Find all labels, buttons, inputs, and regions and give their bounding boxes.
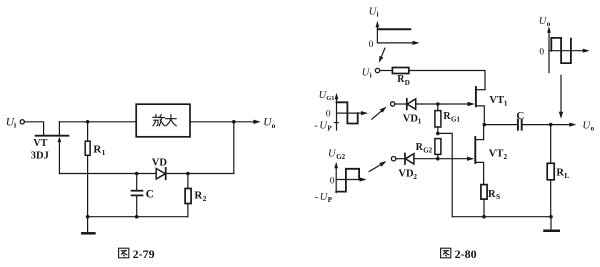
- waveform UG1 axes: [335, 93, 368, 130]
- resistor RL: [547, 125, 554, 217]
- wire bottom rail: [88, 216, 188, 218]
- label Ui terminal: [362, 67, 372, 79]
- svg-text:0: 0: [369, 40, 374, 50]
- capacitor C 2-80: [484, 120, 550, 130]
- svg-text:L: L: [564, 171, 569, 180]
- label VD2: [398, 169, 417, 181]
- svg-text:P: P: [328, 196, 333, 204]
- label Uo: [263, 117, 275, 130]
- label RG1: [443, 111, 460, 124]
- label RD: [397, 74, 410, 87]
- label 大 glyph: [166, 114, 177, 126]
- resistor RG1: [435, 104, 441, 133]
- label VD1: [403, 113, 422, 125]
- svg-text:0: 0: [330, 176, 335, 186]
- svg-text:i: i: [377, 10, 379, 18]
- node RG1 top junction: [436, 102, 440, 106]
- wire terminal to VD1: [395, 103, 407, 105]
- label 3DJ: [31, 150, 49, 161]
- label 0 waveform UG1: [326, 110, 331, 120]
- label UG2: [328, 149, 346, 161]
- wire Ui to gate: [25, 122, 44, 135]
- svg-text:VD: VD: [152, 157, 168, 168]
- resistor RD: [392, 68, 408, 74]
- svg-text:G2: G2: [336, 153, 345, 161]
- wire terminal to VD2: [396, 158, 405, 160]
- svg-text:VD: VD: [403, 113, 419, 124]
- arrow UG1 to VD1: [372, 107, 387, 120]
- label VD: [152, 157, 168, 168]
- label Ui waveform: [369, 6, 379, 18]
- node ground junction: [86, 215, 90, 219]
- ground: [82, 217, 94, 234]
- svg-text:3DJ: 3DJ: [31, 150, 49, 161]
- node Ui terminal 2-80: [375, 68, 379, 72]
- svg-text:G1: G1: [451, 115, 460, 123]
- svg-text:R: R: [488, 189, 496, 200]
- svg-text:1: 1: [102, 148, 106, 157]
- resistor RG2: [435, 139, 441, 159]
- diode VD: [156, 168, 166, 180]
- arrow waveform Ui to terminal: [379, 48, 385, 63]
- wire bottom rail 2-80: [452, 216, 551, 218]
- label VT1: [489, 95, 507, 107]
- resistor R1: [85, 122, 90, 217]
- node RG1 RG2 mid junction: [436, 132, 440, 136]
- svg-text:i: i: [370, 71, 372, 79]
- svg-text:2-79: 2-79: [133, 247, 155, 261]
- node ground junction 2-80: [549, 215, 553, 219]
- wire output arrow 2-80: [551, 123, 577, 127]
- ground 2-80: [545, 217, 559, 231]
- resistor RS: [481, 185, 487, 217]
- label VT2: [489, 148, 508, 160]
- caption 图 2-79: [119, 248, 129, 258]
- node RG2 bottom junction: [436, 157, 440, 161]
- arrow UG2 to VD2: [369, 161, 386, 171]
- wire Ui to RD: [380, 70, 393, 72]
- arrow waveform Uo to output: [559, 75, 563, 118]
- waveform UG1 pulse: [334, 102, 357, 123]
- svg-text:-: -: [314, 120, 318, 131]
- op-amp block 放大: [136, 104, 190, 137]
- label -UP waveform UG1: [314, 120, 332, 132]
- label C: [146, 189, 154, 201]
- svg-text:0: 0: [326, 110, 331, 120]
- node output junction: [232, 120, 236, 124]
- label 0 waveform UG2: [330, 176, 335, 186]
- label RS: [488, 189, 500, 201]
- wire VD1 to VT1 gate: [416, 103, 469, 105]
- label C 2-80: [516, 110, 524, 122]
- svg-text:2-80: 2-80: [455, 247, 477, 261]
- svg-text:VT: VT: [489, 95, 504, 106]
- svg-text:VD: VD: [398, 169, 414, 180]
- svg-text:2: 2: [503, 152, 507, 161]
- node C bottom junction: [135, 215, 139, 219]
- wire output to feedback rail: [166, 122, 234, 174]
- svg-text:2: 2: [203, 194, 207, 203]
- svg-text:-: -: [315, 192, 319, 203]
- node VD2 terminal: [391, 157, 395, 161]
- waveform UG2 pulse: [336, 169, 359, 192]
- label 0 waveform Ui: [369, 40, 374, 50]
- svg-text:C: C: [516, 110, 524, 122]
- transistor VT2: [467, 125, 484, 185]
- label RG2: [416, 142, 433, 155]
- transistor VT 3DJ: [36, 122, 69, 174]
- node VD1 terminal: [391, 102, 395, 106]
- caption 图 2-80: [441, 248, 451, 258]
- svg-text:D: D: [405, 79, 410, 87]
- diode VD2: [405, 154, 414, 165]
- transistor VT1: [468, 87, 485, 125]
- svg-text:o: o: [272, 121, 276, 130]
- wire mid junction to bottom rail: [438, 133, 452, 216]
- node RS bottom junction: [482, 215, 486, 219]
- wire VD2 to VT2 gate: [414, 158, 468, 160]
- label 放 glyph: [153, 115, 165, 126]
- svg-text:C: C: [146, 189, 154, 201]
- node drain junction: [86, 120, 90, 124]
- wire drain to amplifier: [59, 121, 136, 123]
- wire source to diode anode: [59, 173, 156, 175]
- label UG1: [319, 90, 335, 102]
- svg-text:2: 2: [413, 172, 417, 181]
- wire output arrow: [234, 120, 261, 124]
- svg-text:o: o: [591, 125, 595, 133]
- wire RD to VT1 drain: [409, 71, 485, 90]
- wire amplifier to output node: [190, 121, 234, 123]
- svg-text:o: o: [547, 20, 551, 28]
- svg-text:i: i: [14, 121, 16, 130]
- svg-text:G2: G2: [423, 146, 432, 154]
- label Uo terminal 2-80: [582, 120, 594, 133]
- label R1: [93, 144, 105, 157]
- svg-text:VT: VT: [489, 148, 504, 159]
- waveform Ui axes: [376, 21, 420, 45]
- node output junction 2-80: [549, 123, 553, 127]
- label VT: [33, 138, 47, 149]
- svg-text:0: 0: [539, 48, 544, 58]
- node C top junction: [135, 172, 139, 176]
- label -UP waveform UG2: [315, 192, 333, 204]
- node R2 top junction: [186, 172, 190, 176]
- svg-text:S: S: [496, 192, 500, 201]
- capacitor C: [132, 174, 143, 217]
- svg-text:R: R: [556, 168, 564, 179]
- svg-text:P: P: [327, 124, 332, 132]
- resistor R2: [185, 174, 191, 217]
- waveform Uo pulses: [551, 38, 571, 63]
- diode VD1: [407, 99, 416, 110]
- label 0 waveform Uo: [539, 48, 544, 58]
- waveform Uo axes: [547, 26, 590, 72]
- waveform Ui step signal: [378, 28, 410, 30]
- svg-text:G1: G1: [326, 95, 334, 102]
- svg-text:VT: VT: [33, 138, 47, 149]
- label R2: [194, 189, 206, 203]
- label Ui: [6, 116, 16, 129]
- waveform UG2 axes: [334, 162, 366, 193]
- node Ui input terminal: [20, 120, 24, 124]
- label Uo waveform: [539, 16, 551, 28]
- label RL: [556, 168, 569, 180]
- svg-text:1: 1: [504, 99, 508, 108]
- svg-text:1: 1: [418, 117, 422, 126]
- node VT1 source junction: [483, 123, 487, 127]
